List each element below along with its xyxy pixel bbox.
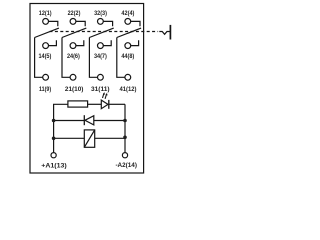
terminal 32(3) [94,10,107,24]
terminal 11(9) [39,74,51,93]
wire coil branch left [54,137,85,139]
changeover blade pole 4 [117,28,141,37]
terminal 42(4) [121,10,134,24]
wire common pole 1 [35,38,43,78]
terminal 14(5) [38,43,51,60]
svg-text:34(7): 34(7) [94,53,107,60]
wire LED to right bus [109,103,125,105]
svg-text:22(2): 22(2) [68,10,81,17]
svg-text:11(9): 11(9) [39,86,51,93]
wire NO stub pole 2 [76,40,84,45]
wire common pole 3 [89,38,97,78]
actuation dashed link [50,31,159,33]
terminal 12(1) [39,10,52,24]
svg-text:12(1): 12(1) [39,10,52,17]
terminal 21(10) [65,74,84,93]
terminal 31(11) [91,74,110,93]
terminal 34(7) [94,43,107,60]
wire NC stub pole 2 [76,21,85,26]
wire diode branch right [94,120,125,122]
terminal A1(13) [41,153,66,170]
wire NO stub pole 1 [49,40,57,45]
wire common pole 2 [62,38,70,78]
wire left bus A1 [54,104,68,152]
svg-text:+A1(13): +A1(13) [41,162,66,169]
wire right bus A2 [124,104,126,152]
svg-text:32(3): 32(3) [94,10,107,17]
svg-text:14(5): 14(5) [38,53,51,60]
wire common pole 4 [117,38,125,78]
svg-text:44(8): 44(8) [121,53,134,60]
svg-text:21(10): 21(10) [65,86,84,93]
junction dot right diode [123,119,127,123]
terminal 41(12) [120,74,137,93]
terminal 24(6) [67,43,80,60]
svg-text:24(6): 24(6) [67,53,80,60]
terminal 22(2) [68,10,81,24]
junction dot right coil [123,136,127,140]
wire NC stub pole 3 [103,21,112,26]
wire NO stub pole 4 [131,40,139,45]
svg-text:41(12): 41(12) [120,86,137,93]
terminal A2(14) [115,153,137,170]
wire diode branch left [54,120,85,122]
wire resistor to LED [88,103,102,105]
diode V1 [84,115,94,125]
svg-text:31(11): 31(11) [91,86,110,93]
wire NC stub pole 4 [131,21,140,26]
wire coil branch right [95,137,125,139]
svg-text:-A2(14): -A2(14) [115,162,137,169]
changeover blade pole 2 [62,28,86,37]
junction dot left coil [52,137,56,141]
terminal 44(8) [121,43,134,60]
wire NO stub pole 3 [103,40,111,45]
svg-text:42(4): 42(4) [121,10,134,17]
junction dot left diode [52,119,56,123]
LED indicator [101,92,109,109]
relay enclosure [30,4,144,174]
resistor R1 [68,101,88,107]
changeover blade pole 3 [89,28,113,37]
wire NC stub pole 1 [49,21,58,26]
relay coil K1 [84,130,94,147]
actuator test button [159,25,170,40]
changeover blade pole 1 [35,28,59,37]
